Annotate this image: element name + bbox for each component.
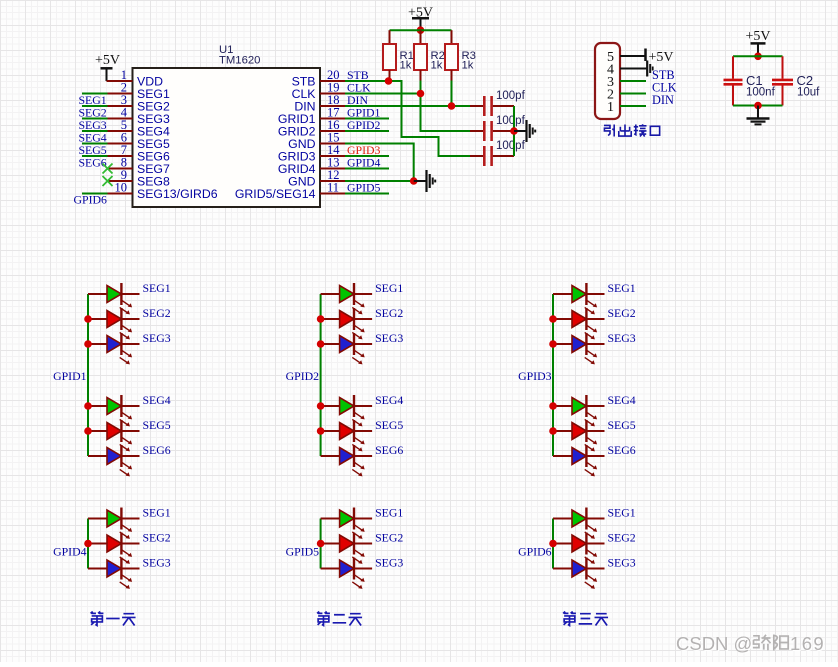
resistor R1 <box>383 30 396 70</box>
svg-text:100nf: 100nf <box>746 87 776 99</box>
svg-text:GPID4: GPID4 <box>347 156 381 170</box>
pin name SEG13/GIRD6 <box>137 187 218 201</box>
node C1/C2 bottom junction <box>754 102 762 110</box>
pin name GND <box>288 137 315 151</box>
node GPID5 junction <box>317 540 325 548</box>
wire STB <box>345 81 470 156</box>
wire C1/C2 bottom rail <box>733 105 783 107</box>
net label DIN (connector) <box>652 93 674 107</box>
svg-text:GRID5/SEG14: GRID5/SEG14 <box>235 187 316 201</box>
capacitor C1 <box>724 56 743 105</box>
pin 14 GRID3 stub <box>320 155 345 157</box>
net label GPID2 <box>286 369 320 383</box>
label SEG5 <box>375 418 403 432</box>
pin 11 GRID5/SEG14 stub <box>320 193 345 195</box>
caption 第二天 <box>317 612 362 626</box>
label SEG5 <box>143 418 171 432</box>
pin number 19 <box>327 81 340 95</box>
svg-text:SEG13/GIRD6: SEG13/GIRD6 <box>137 187 218 201</box>
pin name GRID1 <box>278 112 316 126</box>
wire capacitor common <box>513 106 515 156</box>
label SEG1 <box>375 281 403 295</box>
svg-text:SEG5: SEG5 <box>375 418 403 432</box>
net label SEG2 <box>79 106 107 120</box>
pin name SEG4 <box>137 125 170 139</box>
LED D4 <box>88 395 140 426</box>
LED D23 <box>321 533 373 564</box>
pin 9 SEG8 stub <box>108 180 133 182</box>
U1 designator label <box>219 44 233 56</box>
net label CLK <box>347 81 371 95</box>
wire GPID1 bus <box>87 294 89 456</box>
net label GPID3 <box>518 369 552 383</box>
capacitor C2 <box>772 56 793 105</box>
pin 10 SEG13/GIRD6 stub <box>108 193 133 195</box>
svg-text:1: 1 <box>607 100 614 115</box>
power +5V (C1/C2) <box>745 29 770 56</box>
connector pin number 1 <box>607 100 614 115</box>
label SEG6 <box>608 443 636 457</box>
label SEG6 <box>375 443 403 457</box>
svg-text:+5V: +5V <box>649 50 674 65</box>
pin number 3 <box>121 93 127 107</box>
pin number 5 <box>121 118 127 132</box>
pin number 8 <box>121 156 127 170</box>
svg-text:SEG2: SEG2 <box>608 531 636 545</box>
LED D21 <box>88 558 140 589</box>
wire R3 to DIN node <box>451 70 453 106</box>
svg-text:100pf: 100pf <box>496 140 526 152</box>
label SEG4 <box>375 393 403 407</box>
label R1 <box>400 50 414 62</box>
net label GPID1 <box>53 369 87 383</box>
LED D13 <box>553 283 605 314</box>
net label SEG5 <box>79 143 107 157</box>
LED D12 <box>321 445 373 476</box>
net label STB <box>347 68 369 82</box>
label 引出接口 <box>604 124 660 136</box>
LED D10 <box>321 395 373 426</box>
svg-text:GPID1: GPID1 <box>53 369 87 383</box>
svg-text:SEG4: SEG4 <box>143 393 171 407</box>
connector pin 4 wire <box>620 68 647 70</box>
pin name SEG2 <box>137 100 170 114</box>
pin number 11 <box>327 181 339 195</box>
ground (connector pin 4) <box>647 61 653 77</box>
pin number 15 <box>327 131 340 145</box>
node GPID1 junction <box>84 427 92 435</box>
svg-text:+5V: +5V <box>745 29 770 44</box>
connector pin number 2 <box>607 88 614 103</box>
power +5V (resistors) <box>408 6 433 31</box>
ground (IC GND pins) <box>414 170 436 192</box>
node GPID3 junction <box>549 402 557 410</box>
pin number 4 <box>121 106 128 120</box>
pin name SEG3 <box>137 112 170 126</box>
wire R2 to CLK node <box>420 70 422 94</box>
svg-text:SEG4: SEG4 <box>375 393 403 407</box>
LED D14 <box>553 308 605 339</box>
label SEG1 <box>608 281 636 295</box>
pin name STB <box>292 75 316 89</box>
node GPID2 junction <box>317 315 325 323</box>
connector pin number 3 <box>607 75 614 90</box>
wire DIN <box>345 105 470 107</box>
net label GPID5 <box>286 545 320 559</box>
pin number 20 <box>327 68 340 82</box>
net label GPID5 <box>347 181 381 195</box>
pin 6 SEG5 stub <box>108 143 133 145</box>
wire GPID5 <box>345 193 389 195</box>
LED D25 <box>553 508 605 539</box>
svg-text:CSDN @: CSDN @ <box>676 633 752 654</box>
svg-text:SEG3: SEG3 <box>375 556 403 570</box>
label SEG2 <box>143 531 171 545</box>
svg-text:DIN: DIN <box>652 93 674 107</box>
svg-text:SEG1: SEG1 <box>143 506 171 520</box>
LED D26 <box>553 533 605 564</box>
power +5V (connector) <box>646 49 674 66</box>
label SEG1 <box>608 506 636 520</box>
pin 4 SEG3 stub <box>108 118 133 120</box>
svg-text:SEG2: SEG2 <box>375 306 403 320</box>
pin name GND <box>288 175 315 189</box>
pin name SEG6 <box>137 150 170 164</box>
caption 第三天 <box>563 612 608 626</box>
node C1/C2 top junction <box>754 53 762 61</box>
resistor R3 <box>445 30 458 70</box>
resistor R2 <box>414 30 427 70</box>
node GPID3 junction <box>549 340 557 348</box>
LED D5 <box>88 420 140 451</box>
svg-text:10: 10 <box>115 181 128 195</box>
LED D2 <box>88 308 140 339</box>
wire to pin 10 <box>82 193 108 195</box>
LED D15 <box>553 333 605 364</box>
pin name SEG8 <box>137 175 170 189</box>
pin name SEG1 <box>137 87 170 101</box>
svg-text:1k: 1k <box>462 60 474 72</box>
value 1k (R3) <box>462 60 474 72</box>
wire GND pin12 <box>345 180 414 182</box>
svg-text:GPID5: GPID5 <box>286 545 320 559</box>
net label SEG1 <box>79 93 107 107</box>
svg-text:10uf: 10uf <box>797 87 820 99</box>
no-connect X mark <box>103 164 113 174</box>
svg-text:1k: 1k <box>431 60 443 72</box>
label SEG1 <box>375 506 403 520</box>
LED D17 <box>553 420 605 451</box>
pin name DIN <box>294 100 315 114</box>
node GPID1 junction <box>84 315 92 323</box>
ground (capacitors) <box>514 120 535 142</box>
pin number 6 <box>121 131 127 145</box>
wire +5V rail <box>390 29 452 31</box>
svg-text:GPID5: GPID5 <box>347 181 381 195</box>
value 100pf <box>496 115 526 127</box>
wire GPID1 <box>345 118 389 120</box>
label R2 <box>431 50 445 62</box>
pin number 18 <box>327 93 340 107</box>
node GPID2 junction <box>317 402 325 410</box>
connector pin number 5 <box>607 50 614 65</box>
label SEG5 <box>608 418 636 432</box>
label C2 <box>797 73 814 88</box>
svg-text:GPID4: GPID4 <box>53 545 87 559</box>
svg-text:11: 11 <box>327 181 339 195</box>
svg-text:100pf: 100pf <box>496 115 526 127</box>
wire GND pin15 <box>345 144 414 182</box>
wire GPID2 <box>345 130 389 132</box>
power +5V (pin 1) <box>95 53 133 81</box>
pin 8 SEG7 stub <box>108 168 133 170</box>
label SEG3 <box>608 556 636 570</box>
wire GPID4 <box>345 168 389 170</box>
label SEG3 <box>608 331 636 345</box>
svg-text:GPID3: GPID3 <box>518 369 552 383</box>
net label CLK (connector) <box>652 81 677 95</box>
wire GPID2 bus <box>320 294 322 456</box>
label SEG4 <box>143 393 171 407</box>
pin number 14 <box>327 143 340 157</box>
svg-text:GPID2: GPID2 <box>347 118 381 132</box>
capacitor 100pf C5 <box>470 121 514 141</box>
svg-text:SEG6: SEG6 <box>143 443 171 457</box>
LED D9 <box>321 333 373 364</box>
svg-text:SEG2: SEG2 <box>608 306 636 320</box>
svg-text:SEG1: SEG1 <box>143 281 171 295</box>
label SEG2 <box>143 306 171 320</box>
label SEG6 <box>143 443 171 457</box>
wire to pin 7 <box>82 155 108 157</box>
svg-text:SEG3: SEG3 <box>608 556 636 570</box>
connector pin 1 wire <box>620 105 646 107</box>
svg-text:SEG1: SEG1 <box>375 281 403 295</box>
LED D1 <box>88 283 140 314</box>
pin number 1 <box>121 68 127 82</box>
label SEG2 <box>608 306 636 320</box>
LED D3 <box>88 333 140 364</box>
wire GPID3 <box>345 155 389 157</box>
net label GPID3 <box>347 143 381 157</box>
node GND junction <box>410 177 418 185</box>
wire to pin 2 <box>82 93 108 95</box>
caption 第一天 <box>91 612 136 626</box>
svg-text:SEG2: SEG2 <box>143 531 171 545</box>
svg-text:1k: 1k <box>400 60 412 72</box>
pin name CLK <box>292 87 317 101</box>
LED D24 <box>321 558 373 589</box>
ground (C1/C2) <box>747 106 770 125</box>
pin 16 GRID2 stub <box>320 130 345 132</box>
pin 2 SEG1 stub <box>108 93 133 95</box>
connector pin 3 wire <box>620 80 646 82</box>
node R3/DIN junction <box>448 102 456 110</box>
svg-text:SEG2: SEG2 <box>143 306 171 320</box>
label SEG3 <box>375 556 403 570</box>
wire C1/C2 top rail <box>733 55 783 57</box>
net label GPID2 <box>347 118 381 132</box>
LED D22 <box>321 508 373 539</box>
wire to pin 5 <box>82 130 108 132</box>
wire CLK <box>345 94 470 132</box>
wire to pin 6 <box>82 143 108 145</box>
pin 7 SEG6 stub <box>108 155 133 157</box>
pin name GRID4 <box>278 162 316 176</box>
value 100nf <box>746 87 776 99</box>
wire GPID5 bus <box>320 519 322 569</box>
svg-text:SEG3: SEG3 <box>143 331 171 345</box>
pin number 7 <box>121 143 127 157</box>
value 100pf <box>496 90 526 102</box>
net label SEG3 <box>79 118 107 132</box>
node R1/STB junction <box>385 77 393 85</box>
LED D7 <box>321 283 373 314</box>
watermark CSDN @骄阳169 <box>676 633 826 655</box>
node R2/CLK junction <box>417 90 425 98</box>
LED D18 <box>553 445 605 476</box>
label SEG3 <box>375 331 403 345</box>
node GPID3 junction <box>549 427 557 435</box>
node GPID6 junction <box>549 540 557 548</box>
svg-text:SEG1: SEG1 <box>608 506 636 520</box>
pin number 10 <box>115 181 128 195</box>
pin number 13 <box>327 156 340 170</box>
svg-text:SEG5: SEG5 <box>608 418 636 432</box>
pin 17 GRID1 stub <box>320 118 345 120</box>
pin 19 CLK stub <box>320 93 345 95</box>
pin number 12 <box>327 168 340 182</box>
net label SEG6 <box>79 156 107 170</box>
pin 5 SEG4 stub <box>108 130 133 132</box>
svg-text:SEG2: SEG2 <box>375 531 403 545</box>
pin number 2 <box>121 81 127 95</box>
node GPID4 junction <box>84 540 92 548</box>
net label STB (connector) <box>652 68 675 82</box>
svg-text:SEG3: SEG3 <box>143 556 171 570</box>
svg-text:SEG3: SEG3 <box>375 331 403 345</box>
pin 3 SEG2 stub <box>108 105 133 107</box>
label SEG2 <box>608 531 636 545</box>
pin 20 STB stub <box>320 80 345 82</box>
U1 value label TM1620 <box>219 55 260 67</box>
capacitor 100pf C4 <box>470 96 514 116</box>
net label SEG4 <box>79 131 107 145</box>
node GPID2 junction <box>317 340 325 348</box>
pin name SEG7 <box>137 162 170 176</box>
svg-text:GPID6: GPID6 <box>518 545 552 559</box>
label SEG1 <box>143 281 171 295</box>
svg-text:100pf: 100pf <box>496 90 526 102</box>
svg-text:SEG1: SEG1 <box>375 506 403 520</box>
pin name GRID5/SEG14 <box>235 187 316 201</box>
net label GPID6 <box>74 193 108 207</box>
value 10uf <box>797 87 820 99</box>
LED D19 <box>88 508 140 539</box>
label SEG4 <box>608 393 636 407</box>
pin name VDD <box>137 75 163 89</box>
svg-text:SEG6: SEG6 <box>608 443 636 457</box>
pin 13 GRID4 stub <box>320 168 345 170</box>
pin 12 GND stub <box>320 180 345 182</box>
wire to pin 3 <box>82 105 108 107</box>
connector pin 5 wire <box>620 55 645 57</box>
pin name SEG5 <box>137 137 170 151</box>
svg-text:GPID6: GPID6 <box>74 193 108 207</box>
label SEG2 <box>375 531 403 545</box>
value 1k (R2) <box>431 60 443 72</box>
pin number 9 <box>121 168 127 182</box>
wire GPID6 bus <box>552 519 554 569</box>
wire to pin 4 <box>82 118 108 120</box>
label SEG2 <box>375 306 403 320</box>
LED D8 <box>321 308 373 339</box>
node GPID1 junction <box>84 402 92 410</box>
label SEG1 <box>143 506 171 520</box>
wire R1 to STB node <box>389 70 391 81</box>
node GPID2 junction <box>317 427 325 435</box>
connector J1 body <box>595 43 620 119</box>
pin 1 VDD stub <box>108 80 133 82</box>
node capacitor common junction <box>510 127 518 135</box>
node GPID1 junction <box>84 340 92 348</box>
connector pin number 4 <box>607 63 614 78</box>
LED D27 <box>553 558 605 589</box>
svg-text:SEG6: SEG6 <box>375 443 403 457</box>
node +5V junction <box>417 26 425 34</box>
op-amp U1 TM1620 body <box>133 68 321 207</box>
svg-text:SEG6: SEG6 <box>79 156 107 170</box>
wire GPID4 bus <box>87 519 89 569</box>
no-connect X mark <box>103 176 113 186</box>
net label DIN <box>347 93 368 107</box>
label R3 <box>462 50 476 62</box>
svg-text:SEG3: SEG3 <box>608 331 636 345</box>
svg-text:SEG4: SEG4 <box>608 393 636 407</box>
value 100pf <box>496 140 526 152</box>
pin number 17 <box>327 106 340 120</box>
pin 18 DIN stub <box>320 105 345 107</box>
net label GPID6 <box>518 545 552 559</box>
pin number 16 <box>327 118 340 132</box>
LED D11 <box>321 420 373 451</box>
net label GPID4 <box>347 156 381 170</box>
LED D16 <box>553 395 605 426</box>
net label GPID4 <box>53 545 87 559</box>
svg-text:169: 169 <box>790 633 825 654</box>
svg-text:SEG1: SEG1 <box>608 281 636 295</box>
pin name GRID3 <box>278 150 316 164</box>
svg-text:SEG5: SEG5 <box>143 418 171 432</box>
LED D20 <box>88 533 140 564</box>
LED D6 <box>88 445 140 476</box>
capacitor 100pf C6 <box>470 146 514 166</box>
label SEG3 <box>143 331 171 345</box>
connector pin 2 wire <box>620 93 646 95</box>
pin 15 GND stub <box>320 143 345 145</box>
label SEG3 <box>143 556 171 570</box>
value 1k (R1) <box>400 60 412 72</box>
label C1 <box>746 73 763 88</box>
node GPID3 junction <box>549 315 557 323</box>
wire GPID3 bus <box>552 294 554 456</box>
pin name GRID2 <box>278 125 316 139</box>
svg-text:+5V: +5V <box>95 53 120 68</box>
svg-text:GPID2: GPID2 <box>286 369 320 383</box>
svg-text:TM1620: TM1620 <box>219 55 260 67</box>
net label GPID1 <box>347 106 381 120</box>
